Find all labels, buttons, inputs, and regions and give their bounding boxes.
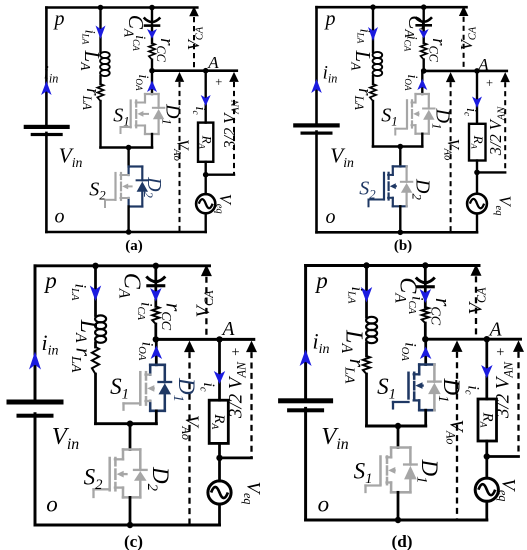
wire V_eq to bottom rail (a) (204, 213, 206, 232)
wire R_A to node (d) (485, 441, 488, 457)
inductor L_A (d) (366, 317, 377, 324)
resistor r_LA (a) (97, 84, 103, 101)
wire S1 source to phase (d) (424, 410, 427, 426)
transistor S1 (a) body (145, 93, 159, 95)
wire inductor branch (b) (372, 7, 374, 52)
svg-text:+: + (232, 345, 240, 361)
junction top rail / C_A (d) (422, 262, 428, 268)
wire bottom rail (c) (35, 524, 220, 527)
junction top rail / L_A (c) (92, 263, 98, 269)
transistor S2 (a) channel (120, 173, 122, 179)
capacitor C_A (a) (151, 8, 153, 22)
transistor S2 (d) body arrow (388, 467, 395, 474)
wire node to V_AN line (b) (477, 171, 505, 173)
svg-text:p: p (53, 8, 65, 30)
svg-text:o: o (46, 492, 58, 517)
svg-text:A: A (477, 55, 489, 74)
voltage arrow V_AN (d) (513, 340, 524, 352)
junction S2 / bottom rail (a) (126, 229, 132, 235)
transistor S1 (c) gate (139, 372, 142, 404)
current arrow i_LA (a) (96, 26, 106, 40)
voltage arrow V_Ao (d) (452, 340, 463, 352)
wire phase node (a) (101, 146, 153, 149)
transistor S2 (b) body arrow (390, 183, 396, 189)
wire phase to S2 (d) (397, 426, 400, 448)
wire V_eq to bottom rail (b) (476, 214, 478, 233)
node below r_CC (c) (153, 336, 159, 342)
svg-text:p: p (324, 8, 336, 30)
battery V_in (b) (293, 123, 340, 127)
diode D1 (c) (body diode) (164, 365, 167, 382)
junction top rail / L_A (d) (363, 262, 369, 268)
transistor S1 (b) body arrow (413, 111, 419, 117)
resistor r_LA (d) (363, 356, 370, 374)
wire r_CC to node (c) (154, 324, 157, 339)
transistor S2 (b) gate (383, 173, 385, 200)
resistor R_A (d) (478, 399, 497, 441)
diode D1 (d) (body diode) (433, 365, 436, 382)
inductor L_A (a) (100, 52, 110, 58)
current arrow i_c (b) (472, 97, 482, 109)
resistor R_A (a) (198, 123, 213, 162)
phase node junction (a) (126, 145, 132, 151)
wire top rail (c) (35, 264, 210, 267)
wire left rail lower (c) (34, 414, 37, 525)
svg-text:o: o (318, 492, 330, 517)
wire bottom rail (b) (317, 231, 478, 234)
current arrow i_c (d) (481, 365, 493, 378)
source V_eq (d) (485, 457, 488, 479)
wire node A horizontal (c) (156, 338, 254, 341)
wire phase node (d) (367, 425, 426, 428)
wire left rail lower (d) (304, 408, 307, 520)
node below R_A (c) (216, 455, 222, 461)
voltage arrow V_Ao (b) (446, 72, 456, 82)
wire node to V_AN line (a) (206, 173, 234, 175)
diode D1 (a) (body diode) (158, 94, 160, 108)
wire left rail upper (d) (304, 266, 307, 400)
wire node A horizontal (d) (425, 338, 520, 341)
resistor r_LA (b) (370, 84, 376, 101)
source V_eq (b) (476, 172, 478, 193)
wire node A down (a) (204, 71, 206, 123)
wire S1 source to phase (b) (421, 134, 423, 147)
battery V_in (c) (7, 400, 64, 405)
transistor S1 (d) body arrow (415, 382, 422, 389)
current arrow i_OA (d) (420, 347, 432, 360)
resistor R_A (b) (469, 124, 486, 161)
transistor S1 (c) body (150, 364, 165, 367)
inductor L_A (b) (373, 52, 383, 58)
resistor r_CC (c) (152, 306, 159, 324)
junction S2 / bottom rail (b) (398, 230, 404, 236)
voltage arrow V_Ao (a) (175, 72, 184, 82)
svg-text:+: + (215, 75, 222, 89)
diode D2 (d) (body diode) (409, 448, 412, 465)
transistor S2 (d) channel (386, 457, 389, 463)
wire node A down (d) (485, 339, 488, 399)
current arrow i_CA (c) (154, 284, 157, 306)
resistor r_LA (c) (92, 347, 99, 374)
transistor S2 (a) body arrow (122, 184, 128, 190)
junction top rail / C_A (b) (421, 4, 427, 10)
voltage arrow V_CA (a) (189, 6, 199, 16)
wire C-node to S1 (c) (155, 339, 158, 364)
wire S1 source to phase (a) (151, 134, 153, 148)
wire C-node to S1 (a) (151, 71, 153, 94)
wire node A down (b) (476, 71, 478, 124)
wire C-node to S1 (b) (421, 71, 423, 94)
junction top rail / L_A (a) (98, 5, 104, 11)
wire R_A to node (c) (218, 443, 221, 458)
wire C-node to S1 (d) (424, 339, 427, 364)
diode D1 (b) (body diode) (428, 94, 430, 109)
diode D2 (a) (body diode) (141, 167, 143, 181)
transistor S2 (c) channel (114, 458, 117, 465)
node A (a) (203, 68, 209, 74)
svg-text:o: o (326, 206, 336, 228)
wire left rail upper (b) (315, 7, 318, 124)
transistor S2 (d) body (391, 446, 410, 449)
svg-text:+: + (496, 345, 504, 361)
current arrow i_c (c) (214, 371, 225, 384)
wire r_CC to node (b) (423, 60, 425, 71)
node below R_A (d) (484, 453, 490, 459)
svg-text:(d): (d) (391, 532, 412, 550)
wire phase to S2 (a) (127, 148, 129, 167)
wire phase to S2 (c) (129, 424, 132, 450)
transistor S1 (a) body arrow (137, 111, 143, 117)
node below R_A (a) (203, 172, 209, 178)
node below r_CC (b) (421, 68, 427, 74)
wire phase node (c) (96, 422, 157, 425)
current arrow i_OA (b) (417, 79, 427, 90)
voltage arrow V_AN (b) (500, 72, 510, 82)
transistor S1 (d) body (419, 363, 434, 366)
wire phase node (b) (373, 145, 422, 148)
node A (b) (474, 68, 480, 74)
resistor r_CC (a) (149, 43, 155, 60)
voltage arrow V_CA (b) (459, 6, 469, 16)
transistor S2 (c) body arrow (117, 471, 124, 478)
node A (d) (484, 336, 490, 342)
wire V_eq to bottom rail (c) (218, 504, 221, 525)
svg-text:(c): (c) (124, 532, 143, 550)
wire S2 source to bottom rail (c) (129, 497, 132, 525)
wire left rail upper (c) (34, 266, 37, 401)
wire left rail lower (b) (315, 132, 318, 233)
wire node to V_AN line (d) (487, 455, 519, 458)
current arrow i_OA (c) (151, 346, 163, 360)
transistor S1 (d) gate (407, 373, 410, 399)
junction S2 / bottom rail (d) (395, 517, 401, 523)
wire S2 source to bottom rail (d) (397, 492, 400, 520)
wire top rail (d) (306, 264, 479, 267)
svg-text:(b): (b) (394, 238, 412, 254)
svg-text:A: A (488, 320, 502, 341)
wire phase to S2 (b) (399, 147, 401, 167)
transistor S1 (a) channel (135, 101, 137, 107)
wire top rail (a) (46, 6, 197, 9)
node below r_CC (d) (422, 336, 428, 342)
current arrow i_OA (a) (147, 81, 157, 93)
wire bottom rail (d) (306, 519, 487, 522)
transistor S1 (d) channel (413, 373, 416, 379)
junction top rail / C_A (a) (149, 5, 155, 11)
battery V_in (a) (24, 125, 70, 129)
node below R_A (b) (474, 170, 480, 176)
transistor S2 (a) gate (114, 173, 116, 200)
svg-text:A: A (221, 319, 235, 340)
wire S2 source to bottom rail (b) (399, 206, 401, 232)
wire r_CC to node (d) (424, 323, 427, 339)
svg-text:p: p (43, 268, 57, 293)
capacitor C_A (d) (424, 266, 427, 283)
transistor S1 (b) channel (411, 100, 413, 106)
voltage arrow V_AN (a) (229, 72, 239, 82)
voltage arrow V_Ao (c) (184, 341, 195, 353)
junction top rail / C_A (c) (153, 263, 159, 269)
wire node A horizontal (a) (152, 69, 237, 72)
svg-text:(a): (a) (125, 238, 143, 254)
diode D2 (c) (body diode) (139, 450, 142, 470)
resistor R_A (c) (209, 400, 228, 443)
current arrow i_CA (b) (423, 24, 425, 43)
current arrow i_CA (a) (151, 24, 153, 43)
junction top rail / L_A (b) (370, 4, 376, 10)
phase node junction (c) (127, 421, 133, 427)
svg-text:+: + (486, 76, 493, 90)
transistor S2 (b) channel (388, 173, 390, 179)
wire bottom rail (a) (46, 231, 205, 234)
voltage arrow V_CA (c) (201, 265, 212, 277)
current arrow i_c (a) (201, 95, 211, 106)
transistor S1 (c) body arrow (147, 385, 154, 392)
svg-text:p: p (314, 268, 328, 293)
transistor S1 (c) channel (145, 372, 148, 379)
node below r_CC (a) (149, 68, 155, 74)
transistor S1 (a) gate (130, 101, 132, 128)
current arrow i_LA (c) (90, 286, 101, 302)
inductor L_A (c) (95, 315, 106, 322)
wire left rail lower (a) (45, 133, 48, 232)
voltage arrow V_AN (c) (246, 341, 257, 353)
wire R_A to node (a) (204, 162, 206, 175)
svg-text:o: o (55, 206, 65, 228)
transistor S2 (b) body (393, 165, 407, 167)
transistor S1 (b) gate (406, 100, 408, 127)
svg-text:A: A (207, 53, 219, 72)
wire node to V_AN line (c) (220, 457, 252, 460)
wire top rail (b) (317, 6, 467, 9)
wire S1 source to phase (c) (155, 411, 158, 424)
transistor S1 (b) body (416, 93, 429, 95)
diode D2 (b) (body diode) (406, 166, 408, 181)
current arrow i_LA (d) (361, 287, 372, 303)
node A (c) (216, 336, 222, 342)
wire inductor branch (c) (94, 266, 97, 316)
wire inductor branch (d) (365, 266, 368, 318)
wire left rail upper (a) (45, 8, 48, 126)
capacitor C_A (b) (423, 7, 425, 21)
battery V_in (d) (278, 398, 333, 403)
source V_eq (a) (204, 175, 206, 194)
wire S2 source to bottom rail (a) (127, 207, 129, 233)
resistor r_CC (b) (421, 43, 427, 60)
resistor r_CC (d) (422, 307, 429, 323)
capacitor C_A (c) (154, 266, 157, 281)
transistor S2 (c) body (123, 448, 140, 451)
current arrow i_LA (b) (368, 27, 378, 41)
current arrow i_CA (d) (424, 285, 427, 307)
wire inductor branch (a) (99, 8, 101, 53)
junction S2 / bottom rail (c) (127, 522, 133, 528)
transistor S2 (d) gate (379, 457, 382, 485)
source V_eq (c) (218, 458, 221, 481)
phase node junction (d) (395, 423, 401, 429)
wire V_eq to bottom rail (d) (485, 501, 488, 520)
transistor S2 (c) gate (108, 458, 111, 490)
wire node A horizontal (b) (424, 70, 507, 73)
wire R_A to node (b) (476, 161, 478, 173)
voltage arrow V_CA (d) (471, 264, 482, 276)
wire node A down (c) (218, 339, 221, 400)
phase node junction (b) (398, 144, 404, 150)
wire r_CC to node (a) (151, 60, 153, 71)
transistor S2 (a) body (129, 165, 143, 167)
